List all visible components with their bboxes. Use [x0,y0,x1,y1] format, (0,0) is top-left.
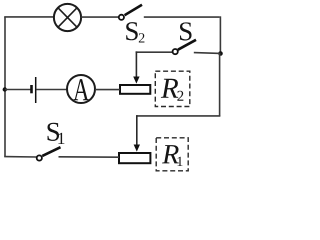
dashed box around R2 [155,71,190,106]
lamp [54,4,81,31]
wire: bottom-left corner to switch S1 [4,156,36,158]
node: junction of S branch and right bus [218,51,223,56]
dashed box around R1 [156,138,188,171]
label S1 [48,123,65,144]
wiper arrow of rheostat R2 [133,51,139,83]
rheostat R1 body [119,153,150,163]
label R2 [161,79,184,101]
wire: left vertical bus [4,17,6,157]
wire: lamp to switch S2 [81,16,118,18]
wire: switch S1 to rheostat R1 [59,156,120,158]
switch S [173,40,196,54]
wire: battery to ammeter [36,89,67,91]
label S [180,22,192,40]
wire: S2 to top-right corner [144,16,220,18]
label R1 [162,145,182,166]
ammeter A [67,75,95,103]
rheostat R2 body [120,85,150,94]
wire: lower horizontal, R1 wiper corner to right bus [137,115,221,117]
battery [32,77,36,103]
wire: ammeter to rheostat R2 [95,89,120,91]
switch S1 [37,147,61,160]
label S2 [126,22,144,42]
wire: right vertical, corner to junction [219,16,221,53]
wire: second row, corner to switch S [136,51,173,53]
wire: switch S to junction [194,52,221,55]
switch S2 [119,5,142,20]
node: battery junction on left bus [3,87,7,91]
wire: right vertical, junction down to lower corner [219,54,221,116]
wire: top-left corner to lamp [4,16,54,18]
wiper arrow of rheostat R1 [134,115,140,152]
wire: left bus to battery [5,89,31,91]
